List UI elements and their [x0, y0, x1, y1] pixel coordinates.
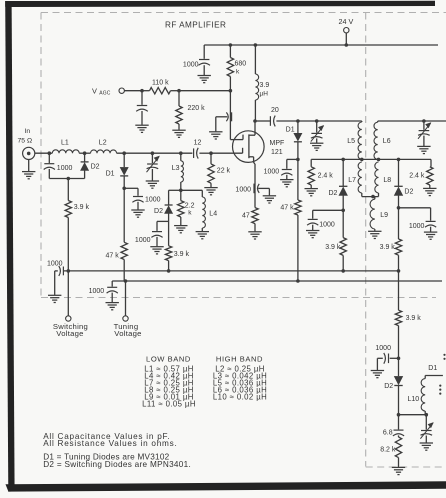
svg-text:L6: L6: [383, 138, 391, 145]
inductor 3.9uH drain choke: [254, 43, 270, 121]
wire switching bus: [63, 269, 400, 273]
capacitor 1000 uhf: [371, 345, 401, 378]
diode D1 band: [286, 119, 302, 159]
svg-text:24 V: 24 V: [339, 17, 354, 26]
svg-text:3.9 k: 3.9 k: [325, 244, 341, 251]
variable capacitor right: [417, 121, 431, 154]
capacitor 1000 input shunt: [44, 153, 73, 178]
variable capacitor mid: [310, 119, 324, 150]
svg-text:L4: L4: [209, 210, 217, 217]
svg-text:D1: D1: [428, 365, 437, 372]
inductor L5: [347, 121, 363, 161]
VAGC terminal: [92, 86, 142, 96]
capacitor 6.8: [383, 415, 404, 437]
svg-text:V: V: [92, 86, 97, 95]
svg-text:1000: 1000: [135, 237, 151, 244]
wire AGC to gate 2: [179, 89, 232, 140]
diode D2 band left: [328, 158, 347, 211]
svg-text:LOW BAND: LOW BAND: [146, 354, 191, 363]
svg-text:1000: 1000: [319, 221, 335, 228]
inductor L7: [348, 162, 362, 197]
svg-text:D1: D1: [106, 170, 115, 177]
svg-text:L5: L5: [347, 138, 355, 145]
transistor Q1 MPF121 dual-gate MOSFET: [230, 121, 284, 208]
resistor 22k: [204, 151, 230, 194]
svg-text:680: 680: [235, 61, 247, 68]
svg-text:D2 = Switching Diodes are MPN3: D2 = Switching Diodes are MPN3401.: [43, 460, 191, 469]
diode D2 uhf: [384, 358, 402, 414]
inductor L8: [375, 162, 391, 197]
svg-text:3.9 k: 3.9 k: [406, 315, 422, 322]
inductor L6: [374, 121, 391, 161]
dashed edge bottom right: [366, 466, 446, 468]
capacitor AGC bypass: [135, 89, 148, 133]
svg-text:22 k: 22 k: [217, 168, 231, 175]
tuning voltage terminal: [114, 281, 142, 338]
continuation dots right edge: [439, 354, 445, 395]
diode D2 L3 switch: [154, 190, 181, 221]
inductor L3: [172, 151, 184, 190]
label RF AMPLIFIER: [165, 21, 226, 30]
svg-text:220 k: 220 k: [188, 105, 206, 112]
wire L2 to coupling cap: [117, 152, 193, 154]
svg-text:L10: L10: [408, 396, 420, 403]
node L3 bottom: [179, 189, 183, 193]
inductor L4: [181, 190, 217, 239]
RF amplifier dashed box bottom edge: [41, 297, 436, 299]
resistor 8.2k: [380, 437, 405, 475]
svg-text:75 Ω: 75 Ω: [18, 138, 33, 145]
svg-text:47: 47: [242, 212, 250, 219]
svg-text:HIGH BAND: HIGH BAND: [216, 354, 263, 363]
svg-text:L10 ≈ 0.02 µH: L10 ≈ 0.02 µH: [213, 393, 267, 402]
capacitor 1000 at D1 band: [264, 158, 300, 187]
inductor L1: [52, 140, 79, 154]
svg-text:2.2: 2.2: [185, 203, 195, 210]
svg-text:3.9 k: 3.9 k: [380, 244, 396, 251]
svg-text:8.2 k: 8.2 k: [380, 446, 396, 453]
resistor 3.9k L3 leg: [165, 221, 189, 271]
capacitor 12 coupling: [194, 139, 211, 158]
svg-text:Voltage: Voltage: [56, 329, 83, 338]
svg-text:3.9 k: 3.9 k: [74, 204, 90, 211]
svg-text:L3: L3: [172, 165, 180, 172]
capacitor 1000 supply bypass: [183, 45, 211, 83]
svg-text:110 k: 110 k: [152, 79, 169, 86]
svg-text:L9: L9: [380, 212, 388, 219]
svg-text:1000: 1000: [89, 288, 105, 295]
svg-text:L2: L2: [99, 140, 107, 147]
capacitor 20 coupling: [253, 107, 362, 126]
svg-text:1000: 1000: [145, 197, 161, 204]
svg-text:µH: µH: [260, 91, 269, 98]
resistor 2.4k right: [409, 167, 436, 196]
svg-text:121: 121: [271, 149, 283, 156]
svg-text:3.9: 3.9: [260, 82, 270, 89]
wire gate 1: [211, 152, 243, 154]
svg-text:L7: L7: [348, 177, 356, 184]
table low band inductance values: [142, 354, 196, 408]
svg-text:12: 12: [194, 139, 202, 146]
wire L6 rail right: [378, 119, 446, 123]
svg-text:1000: 1000: [409, 223, 425, 230]
capacitor 1000 source bypass: [235, 184, 276, 203]
inductor L9: [368, 197, 388, 239]
wire uhf tank bottom: [397, 413, 428, 417]
RF amplifier dashed box left edge: [40, 13, 42, 298]
svg-text:1000: 1000: [375, 345, 391, 352]
capacitor 1000 band left: [306, 209, 345, 238]
note D1 tuning diodes: [43, 452, 169, 461]
diode D2 band right: [394, 158, 413, 208]
svg-text:3.9 k: 3.9 k: [174, 251, 190, 258]
svg-text:All Resistance Values in ohms.: All Resistance Values in ohms.: [43, 439, 177, 448]
wire 24V rail: [204, 44, 438, 46]
svg-text:D1: D1: [286, 126, 295, 133]
note capacitance values: [43, 432, 170, 441]
svg-text:RF AMPLIFIER: RF AMPLIFIER: [165, 21, 226, 30]
svg-text:D2: D2: [328, 190, 337, 197]
resistor 47k tuning feed left: [106, 188, 128, 281]
svg-text:47 k: 47 k: [280, 204, 294, 211]
svg-text:1000: 1000: [235, 187, 251, 194]
inductor L2: [91, 140, 117, 154]
svg-text:AGC: AGC: [99, 90, 111, 96]
diode D2 input switch: [81, 153, 100, 178]
capacitor 1000 tuning bus end: [89, 281, 119, 310]
capacitor 1000 at D1: [122, 187, 160, 218]
resistor 3.9k switching leg: [65, 179, 89, 271]
svg-text:L8: L8: [383, 177, 391, 184]
svg-text:2.4 k: 2.4 k: [409, 173, 425, 180]
svg-text:6.8: 6.8: [383, 430, 393, 437]
svg-text:D2: D2: [154, 208, 163, 215]
resistor 2.2k: [174, 190, 195, 233]
capacitor 1000 switching bus end: [47, 260, 65, 302]
inductor L10: [408, 365, 443, 415]
svg-text:1000: 1000: [47, 260, 63, 267]
svg-text:MPF: MPF: [270, 140, 285, 147]
resistor 47k band: [280, 159, 301, 281]
band section dashed divider: [365, 13, 367, 467]
resistor 47 source: [242, 208, 262, 239]
svg-text:1000: 1000: [264, 169, 280, 176]
wire L1 to L2: [79, 151, 90, 155]
svg-text:In: In: [25, 128, 31, 135]
wire input to L1: [35, 151, 53, 155]
svg-text:47 k: 47 k: [106, 252, 120, 259]
svg-text:D2: D2: [384, 383, 393, 390]
capacitor 1000 at L3 switch: [135, 221, 169, 254]
capacitor 1000 band right: [397, 206, 438, 239]
svg-text:L1: L1: [61, 140, 69, 147]
node L7 L8 junction: [362, 195, 379, 199]
svg-text:L11 ≈ 0.05 µH: L11 ≈ 0.05 µH: [142, 400, 196, 409]
RF amplifier dashed box top edge: [41, 12, 446, 14]
svg-text:1000: 1000: [183, 62, 199, 69]
table high band inductance values: [213, 354, 267, 401]
note D2 switching diodes: [43, 460, 191, 469]
svg-text:20: 20: [271, 107, 279, 114]
resistor 680k: [227, 43, 246, 90]
resistor 2.4k left: [305, 167, 334, 196]
resistor 3.9k band left: [325, 210, 346, 271]
svg-text:Voltage: Voltage: [114, 329, 141, 338]
wire tuning bus: [112, 279, 442, 283]
24V supply terminal: [339, 17, 354, 47]
variable capacitor input tank: [146, 151, 160, 188]
svg-text:2.4 k: 2.4 k: [318, 173, 334, 180]
resistor 110k: [142, 79, 179, 94]
wire input filter bottom: [49, 177, 84, 181]
diode D1 tuning: [106, 151, 129, 188]
resistor 3.9k uhf: [395, 271, 421, 358]
variable capacitor uhf: [420, 415, 434, 451]
note resistance values: [43, 439, 177, 448]
svg-text:D2: D2: [404, 188, 413, 195]
resistor 220k: [172, 89, 205, 138]
capacitor 1000 gate2 bypass: [209, 112, 232, 139]
switching voltage terminal: [53, 271, 88, 338]
resistor 3.9k band right: [380, 208, 402, 271]
svg-text:1000: 1000: [57, 165, 73, 172]
wire band switch rail: [311, 159, 431, 166]
svg-text:D2: D2: [91, 164, 100, 171]
input connector In 75 ohm: [18, 128, 36, 179]
